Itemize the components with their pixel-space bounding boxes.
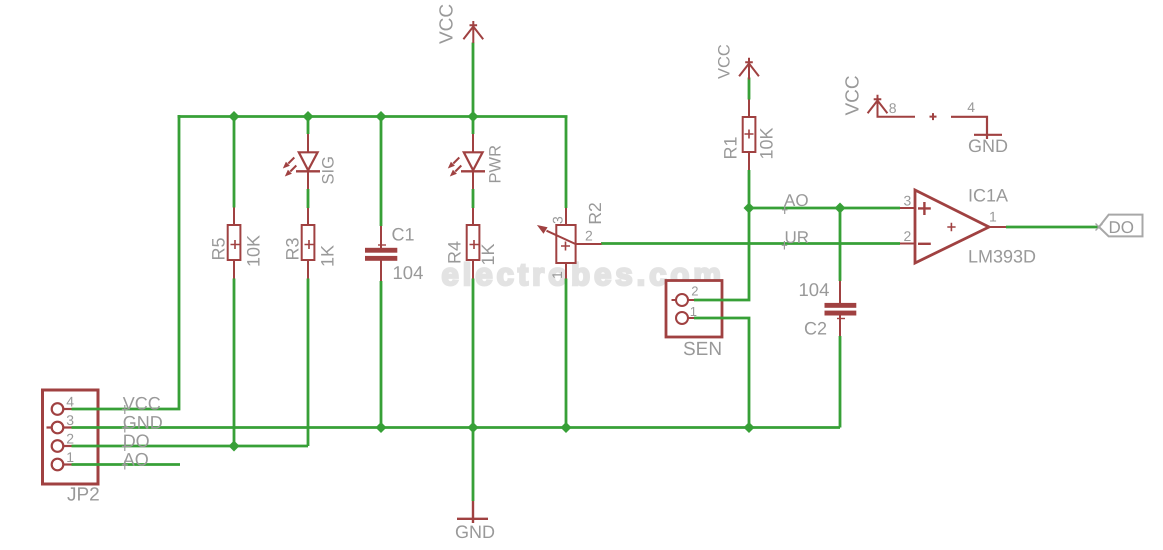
svg-text:SIG: SIG xyxy=(320,156,338,184)
ground symbol bottom xyxy=(457,501,488,523)
svg-text:VCC: VCC xyxy=(123,394,161,414)
wire C2 bottom to GND rail xyxy=(839,336,842,428)
svg-text:VCC: VCC xyxy=(437,4,458,44)
wire VCC from JP2 pin4 xyxy=(72,115,180,409)
resistor R5 xyxy=(228,208,241,279)
wire C1 bottom xyxy=(380,281,383,428)
net label cross AO xyxy=(122,461,128,470)
junction DO at R5 xyxy=(229,441,240,452)
svg-text:1K: 1K xyxy=(478,243,498,265)
wire DO from JP2 pin2 xyxy=(72,445,309,448)
junction top rail VCC/PWR xyxy=(468,111,479,122)
resistor R1 xyxy=(743,100,756,171)
wire VCC stem to PWR LED xyxy=(472,43,475,135)
svg-text:2: 2 xyxy=(66,430,74,446)
junction GND rail SEN xyxy=(744,422,755,433)
svg-text:UR: UR xyxy=(785,228,810,247)
svg-text:1: 1 xyxy=(690,304,697,319)
junction GND rail R4 xyxy=(468,422,479,433)
svg-text:R5: R5 xyxy=(209,237,229,260)
wire PWR LED to R4 xyxy=(472,189,475,208)
svg-text:1: 1 xyxy=(989,208,997,224)
connector JP2 pin 2 xyxy=(52,440,72,452)
power pins VCC arrow pin 8 xyxy=(868,95,915,117)
wire R2 top column xyxy=(565,117,568,209)
svg-text:C2: C2 xyxy=(804,319,827,339)
junction AO at C2 xyxy=(835,203,846,214)
wire R2 bottom to GND xyxy=(565,279,568,428)
connector JP2 pin 3 xyxy=(47,422,72,434)
potentiometer R2 xyxy=(537,208,602,279)
wire R5 bottom to DO net xyxy=(233,279,236,447)
wire R5 top column xyxy=(233,118,236,208)
svg-text:SEN: SEN xyxy=(683,339,722,360)
net label cross UR xyxy=(782,241,788,250)
op-amp IC1A triangle xyxy=(900,190,1006,263)
net label cross GND xyxy=(122,424,128,433)
svg-text:JP2: JP2 xyxy=(67,485,100,506)
resistor R4 xyxy=(467,208,480,279)
svg-text:R2: R2 xyxy=(585,202,605,224)
supply VCC arrow top xyxy=(463,21,483,43)
svg-text:4: 4 xyxy=(66,393,74,409)
svg-text:104: 104 xyxy=(393,262,424,283)
svg-text:AO: AO xyxy=(123,450,149,470)
junction top rail SIG xyxy=(303,111,314,122)
svg-text:GND: GND xyxy=(455,522,495,542)
svg-text:R1: R1 xyxy=(721,136,741,159)
wire GND rail xyxy=(72,426,841,429)
connector JP2 body xyxy=(43,390,99,484)
power pins plus mark xyxy=(930,113,937,120)
wire R3 bottom to DO net xyxy=(307,279,310,447)
svg-text:DO: DO xyxy=(1109,218,1135,237)
svg-text:C1: C1 xyxy=(392,225,415,245)
wire AO net to comparator xyxy=(749,207,900,210)
svg-text:3: 3 xyxy=(904,192,912,208)
wire SEN pin1 to GND rail xyxy=(694,318,749,428)
wire comparator output to DO flag xyxy=(1006,226,1099,229)
output flag DO xyxy=(1099,215,1143,237)
connector SEN pin 2 xyxy=(672,294,695,306)
LED PWR xyxy=(448,134,485,189)
svg-text:1K: 1K xyxy=(318,245,338,267)
svg-text:GND: GND xyxy=(968,136,1008,156)
svg-text:3: 3 xyxy=(66,412,74,428)
wire GND symbol drop xyxy=(472,428,475,502)
LED SIG xyxy=(283,134,320,189)
svg-text:2: 2 xyxy=(691,284,698,299)
wire SIG LED top stub xyxy=(307,118,310,134)
supply VCC arrow at R1 xyxy=(739,58,759,80)
svg-text:R4: R4 xyxy=(445,241,465,264)
svg-text:1: 1 xyxy=(66,449,74,465)
junction GND rail R2 xyxy=(561,422,572,433)
wire C1 top column xyxy=(380,118,383,226)
svg-text:3: 3 xyxy=(550,216,566,224)
svg-text:GND: GND xyxy=(123,413,163,433)
svg-text:LM393D: LM393D xyxy=(968,247,1036,267)
svg-text:8: 8 xyxy=(889,100,897,116)
wire SIG LED to R3 xyxy=(307,189,310,208)
connector SEN body xyxy=(666,281,722,338)
wire VCC to R1 xyxy=(748,78,751,100)
svg-text:DO: DO xyxy=(123,431,150,451)
wire R4 bottom to GND xyxy=(472,279,475,428)
svg-text:2: 2 xyxy=(904,228,912,244)
connector JP2 pin 4 xyxy=(52,403,72,415)
svg-text:VCC: VCC xyxy=(716,44,734,79)
wire R1 bottom to AO node xyxy=(748,170,751,208)
junction GND rail C1 xyxy=(376,422,387,433)
svg-text:PWR: PWR xyxy=(487,145,505,184)
wire VCC top rail xyxy=(178,115,568,118)
junction AO at R1 xyxy=(744,203,755,214)
power pins GND pin 4 xyxy=(951,117,1002,139)
net label cross DO xyxy=(122,442,128,451)
net label cross VCC xyxy=(122,405,128,414)
wire AO stub from JP2 pin1 xyxy=(72,463,181,466)
svg-text:4: 4 xyxy=(967,99,975,115)
wire C2 top to AO node xyxy=(839,208,842,281)
svg-text:AO: AO xyxy=(784,191,809,210)
capacitor C2 xyxy=(825,281,857,336)
svg-text:R3: R3 xyxy=(283,237,303,260)
connector SEN pin 1 xyxy=(676,312,694,324)
net label cross AO xyxy=(782,206,788,215)
connector JP2 pin 1 xyxy=(52,459,72,471)
svg-text:1: 1 xyxy=(549,271,565,279)
junction top rail C1 xyxy=(376,111,387,122)
junction top rail R5 xyxy=(229,111,240,122)
svg-text:VCC: VCC xyxy=(843,75,864,115)
svg-text:10K: 10K xyxy=(757,127,777,159)
svg-text:104: 104 xyxy=(799,279,830,300)
svg-text:IC1A: IC1A xyxy=(968,186,1008,206)
wire SEN pin2 to AO column xyxy=(694,208,749,300)
svg-text:10K: 10K xyxy=(244,235,264,267)
svg-text:2: 2 xyxy=(585,227,593,243)
resistor R3 xyxy=(302,208,315,279)
wire UR net from R2 wiper xyxy=(601,242,900,245)
capacitor C1 xyxy=(365,226,397,281)
